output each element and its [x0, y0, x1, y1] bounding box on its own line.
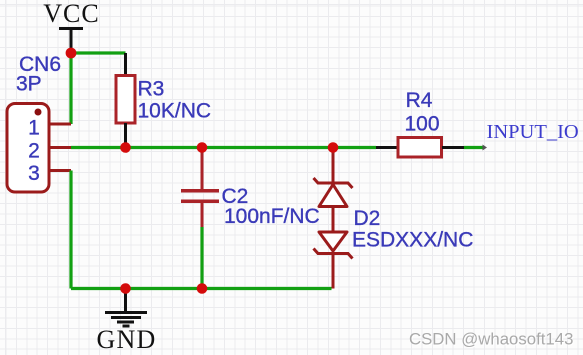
junction node C2 top [197, 142, 208, 153]
svg-text:10K/NC: 10K/NC [138, 100, 212, 123]
svg-text:CSDN @whaosoft143: CSDN @whaosoft143 [409, 330, 573, 349]
svg-text:3P: 3P [16, 73, 42, 96]
wire end tick [483, 145, 488, 151]
ground GND [97, 289, 157, 355]
svg-text:GND: GND [97, 325, 157, 354]
pin 3 [28, 162, 71, 185]
svg-text:100nF/NC: 100nF/NC [224, 205, 320, 228]
wire R4 to net label [464, 146, 483, 149]
svg-text:INPUT_IO: INPUT_IO [487, 121, 579, 143]
wire pin3 down [69, 171, 72, 289]
svg-text:D2: D2 [354, 207, 381, 230]
wire pin2 main horizontal [71, 146, 376, 149]
svg-text:1: 1 [28, 117, 40, 140]
svg-text:R4: R4 [406, 89, 433, 112]
junction node GND tap [120, 283, 131, 294]
junction node D2 top [328, 142, 339, 153]
svg-text:3: 3 [28, 162, 40, 185]
power symbol VCC [43, 0, 99, 53]
svg-text:ESDXXX/NC: ESDXXX/NC [352, 229, 473, 252]
pin 1 [28, 117, 71, 140]
wire bottom horizontal [71, 287, 332, 290]
diode D2 [314, 148, 353, 289]
junction node C2 bottom [197, 283, 208, 294]
pin 2 [28, 140, 71, 163]
connector CN6 [7, 104, 49, 193]
wire VCC node down to pin 1 [69, 53, 72, 124]
svg-text:VCC: VCC [43, 0, 99, 28]
junction dot at VCC node [66, 48, 77, 59]
capacitor C2 [181, 148, 219, 228]
resistor R4 [376, 138, 464, 158]
resistor R3 [116, 53, 135, 148]
junction node R3 bottom [120, 142, 131, 153]
svg-text:R3: R3 [138, 78, 165, 101]
svg-text:2: 2 [28, 140, 40, 163]
watermark [409, 330, 574, 350]
wire C2 bottom [200, 227, 203, 289]
wire VCC node to R3 top [71, 51, 126, 54]
svg-text:100: 100 [404, 113, 439, 136]
